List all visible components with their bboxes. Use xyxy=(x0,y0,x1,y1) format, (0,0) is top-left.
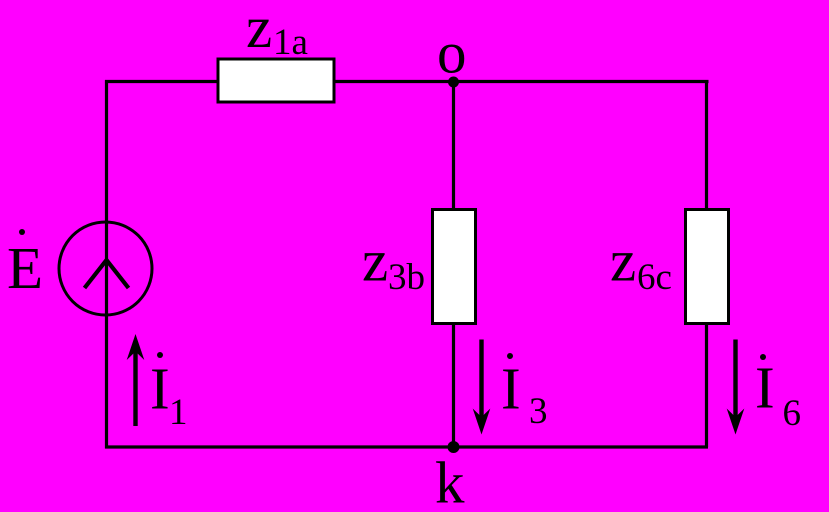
source E wire through circle xyxy=(105,222,108,315)
svg-text:z: z xyxy=(362,228,388,294)
svg-text:3b: 3b xyxy=(388,257,425,298)
label Z1a xyxy=(246,0,308,63)
label I6 (with dot) xyxy=(755,354,801,434)
wire left branch xyxy=(105,80,108,449)
label Z3b xyxy=(362,228,425,299)
svg-text:6c: 6c xyxy=(637,257,672,298)
svg-text:1: 1 xyxy=(169,392,188,433)
current arrow I6 (down) xyxy=(727,340,745,435)
source E chevron xyxy=(85,260,129,288)
wire right branch xyxy=(705,82,708,448)
wire bottom (node k rail) xyxy=(105,445,708,448)
svg-text:6: 6 xyxy=(783,393,802,434)
current arrow I1 (up) xyxy=(127,334,145,426)
svg-text:k: k xyxy=(435,450,465,512)
wire middle branch xyxy=(452,82,455,448)
source E circle xyxy=(59,222,152,315)
node k junction dot xyxy=(448,441,460,453)
svg-text:I: I xyxy=(501,356,521,422)
svg-text:z: z xyxy=(246,0,272,60)
node o junction dot xyxy=(448,77,459,88)
label E (with dot) xyxy=(7,229,43,301)
current arrow I3 (down) xyxy=(473,340,491,435)
svg-text:I: I xyxy=(755,355,775,421)
svg-text:E: E xyxy=(7,235,43,301)
svg-text:I: I xyxy=(150,356,170,422)
impedance Z3b body xyxy=(433,210,476,324)
svg-text:o: o xyxy=(437,20,467,86)
impedance Z1a body xyxy=(218,59,334,102)
wire top (node o rail) xyxy=(105,80,709,83)
svg-text:z: z xyxy=(610,228,636,294)
label Z6c xyxy=(610,228,672,299)
label I3 (with dot) xyxy=(501,353,548,432)
impedance Z6c body xyxy=(686,210,729,324)
svg-text:3: 3 xyxy=(529,391,548,432)
label I1 (with dot) xyxy=(150,352,188,433)
svg-text:1a: 1a xyxy=(273,22,308,63)
